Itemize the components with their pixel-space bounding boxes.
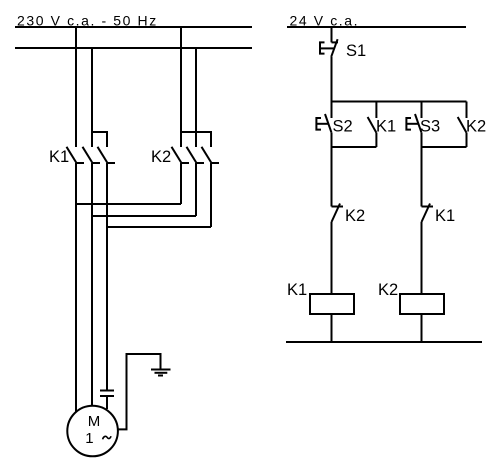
wire S2 bottom xyxy=(331,133,333,147)
svg-text:K1: K1 xyxy=(287,281,307,299)
svg-text:M: M xyxy=(88,413,101,430)
svg-text:K2: K2 xyxy=(378,281,398,299)
wire K2 aux bottom xyxy=(466,133,468,147)
ground symbol xyxy=(151,370,171,376)
svg-text:K1: K1 xyxy=(435,207,455,225)
bus 24V return (bottom) xyxy=(286,341,482,343)
crossover wire 3 (K1.3-K2.3) xyxy=(107,226,211,228)
svg-text:S1: S1 xyxy=(346,42,366,60)
wire S3 bottom xyxy=(421,133,423,147)
pushbutton S1 (NC) xyxy=(320,39,338,57)
capacitor C1 xyxy=(100,391,114,397)
wire K1 pole3 to capacitor xyxy=(106,163,108,391)
wire node to S3 xyxy=(421,102,423,119)
svg-text:24 V c.a.: 24 V c.a. xyxy=(290,12,360,28)
crossover wire 1 (K1.1-K2.1) xyxy=(76,203,181,205)
contact K2 aux (NO) xyxy=(458,117,467,133)
wire K2 pole2 to crossover xyxy=(195,163,197,216)
coil K2 xyxy=(400,294,444,314)
svg-text:K1: K1 xyxy=(376,118,396,136)
wire motor to ground xyxy=(118,354,161,429)
contact K2 interlock (NC) xyxy=(332,204,344,223)
pushbutton S2 (NO) xyxy=(316,114,331,133)
svg-text:230 V c.a. - 50 Hz: 230 V c.a. - 50 Hz xyxy=(17,12,158,28)
svg-text:S2: S2 xyxy=(333,118,353,136)
svg-text:K2: K2 xyxy=(151,148,171,166)
wire node to K2 aux xyxy=(466,102,468,119)
wire K2 NC to coil K1 xyxy=(331,222,333,294)
bus L2 (230V neutral) xyxy=(15,47,252,49)
contact K1 aux (NO) xyxy=(368,117,377,133)
wire node to S2 xyxy=(331,102,333,119)
wire S1 to distribution node xyxy=(331,57,333,102)
wire coil K1 to bottom bus xyxy=(331,314,333,342)
wire coil K2 to bottom bus xyxy=(421,314,423,342)
wire K1 aux bottom xyxy=(375,133,377,147)
junction wire S2/K1 xyxy=(332,146,377,148)
svg-text:S3: S3 xyxy=(420,118,440,136)
pushbutton S3 (NO) xyxy=(406,114,421,133)
contactor K2 pole1 contact xyxy=(172,147,190,163)
contact K1 interlock (NC) xyxy=(422,204,434,223)
contactor K1 pole1 contact xyxy=(67,147,85,163)
wire K1 pole2 to motor xyxy=(91,163,93,406)
wire L2 to K2 pole2 xyxy=(195,48,197,147)
svg-text:1: 1 xyxy=(85,430,93,447)
wire L1 to K1 pole1 xyxy=(75,27,77,147)
svg-text:K2: K2 xyxy=(345,207,365,225)
contactor K1 pole2 contact xyxy=(83,147,101,163)
svg-text:K2: K2 xyxy=(466,118,486,136)
wire K2 pole1 to crossover xyxy=(180,163,182,204)
contactor K2 pole2 contact xyxy=(187,147,205,163)
wire L2 to K1 pole2 xyxy=(91,48,93,147)
wire node to K1 aux xyxy=(375,102,377,119)
wire K2 pole3 to crossover xyxy=(210,163,212,227)
wire K2 pole3 jog from pole1 xyxy=(181,132,211,147)
contactor K2 pole3 contact xyxy=(202,147,220,163)
wire capacitor to motor xyxy=(106,396,108,409)
coil K1 xyxy=(310,294,354,314)
wire L1 to K2 pole1 xyxy=(180,27,182,147)
wire K1 pole1 to motor xyxy=(75,163,77,412)
contactor K1 pole3 contact xyxy=(98,147,116,163)
wire K1 pole3 jog from pole2 xyxy=(92,132,107,147)
distribution wire (control) xyxy=(332,101,467,103)
svg-text:K1: K1 xyxy=(49,148,69,166)
junction wire S3/K2 xyxy=(422,146,467,148)
wire to K2 NC interlock xyxy=(331,147,333,207)
crossover wire 2 (K1.2-K2.2) xyxy=(92,215,196,217)
bus 24V top xyxy=(287,26,466,28)
wire K1 NC to coil K2 xyxy=(421,222,423,294)
wire to K1 NC interlock xyxy=(421,147,423,207)
wire 24V to S1 xyxy=(331,27,333,42)
motor M1 circle xyxy=(67,406,118,457)
bus L1 (230V line) xyxy=(15,26,252,28)
